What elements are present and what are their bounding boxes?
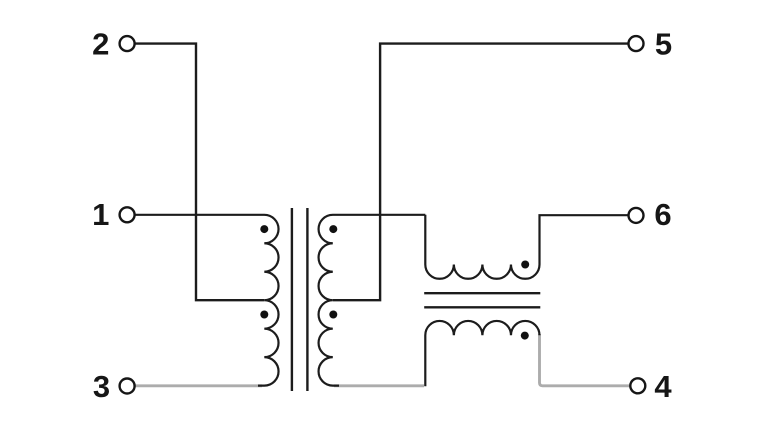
- polarity dot T1 secondary top: [329, 225, 337, 233]
- terminal circle pin4: [630, 378, 645, 393]
- svg-text:5: 5: [655, 27, 672, 62]
- wire pin5 to right winding junction: [333, 44, 629, 301]
- svg-text:1: 1: [92, 197, 109, 232]
- transformer T1 core line right: [306, 208, 308, 391]
- wire T2 to pin4 (gray): [540, 334, 631, 386]
- transformer T2 bottom winding: [425, 321, 539, 386]
- svg-text:2: 2: [92, 27, 109, 62]
- polarity dot T1 secondary bottom: [329, 311, 337, 319]
- transformer T1 primary winding (left): [134, 215, 278, 386]
- svg-text:3: 3: [93, 369, 110, 404]
- polarity dot T2 top winding: [521, 261, 529, 269]
- terminal circle pin3: [120, 379, 135, 394]
- terminal circle pin2: [120, 36, 135, 51]
- svg-text:6: 6: [654, 197, 671, 232]
- polarity dot T1 primary bottom: [260, 311, 268, 319]
- transformer T2 core line bottom: [424, 306, 540, 308]
- transformer T2 top winding with lead to pin6: [425, 215, 628, 279]
- polarity dot T2 bottom winding: [521, 332, 529, 340]
- svg-text:4: 4: [654, 369, 672, 404]
- wire bottom center-to-T2 (gray): [334, 384, 424, 387]
- wire pin3 lead (gray): [135, 384, 262, 387]
- wire pin2 to winding junction: [134, 44, 264, 301]
- transformer T1 secondary winding (right): [319, 215, 426, 386]
- transformer T2 core line top: [424, 292, 540, 294]
- terminal circle pin5: [629, 36, 644, 51]
- terminal circle pin1: [120, 207, 135, 222]
- transformer T1 core line left: [291, 208, 293, 391]
- terminal circle pin6: [629, 208, 644, 223]
- polarity dot T1 primary top: [260, 225, 268, 233]
